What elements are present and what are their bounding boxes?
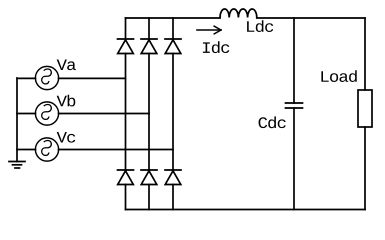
wire Vb to bridge leg 2 [59, 113, 150, 115]
wire left vertical bus [16, 78, 18, 162]
label Ldc [247, 20, 273, 32]
diode D1 [118, 39, 134, 54]
wire bridge leg 3 middle [172, 54, 174, 171]
label Idc [203, 41, 229, 53]
resistor Load [358, 90, 372, 127]
diode D4 [118, 170, 134, 185]
wire bridge leg 2 middle [148, 54, 150, 171]
diode D6 [141, 170, 157, 185]
wire top bus right segment [257, 17, 365, 19]
wire Vc to bridge leg 3 [59, 149, 174, 151]
ac source Vb [35, 102, 58, 125]
label Load [321, 70, 356, 82]
ac source Vc [35, 138, 58, 161]
wire Va left stub [17, 77, 36, 79]
ac source Va [35, 66, 58, 89]
wire bridge leg 3 lower [172, 185, 174, 210]
wire bridge leg 1 middle [125, 54, 127, 171]
diode D2 [165, 170, 181, 185]
label Va [57, 59, 76, 70]
diode D3 [141, 39, 157, 54]
wire load branch upper [364, 18, 366, 90]
arrow Idc [197, 26, 221, 34]
wire Va to bridge leg 1 [59, 77, 126, 79]
wire capacitor branch lower [293, 108, 295, 210]
ground [9, 162, 25, 169]
wire bridge leg 1 lower [125, 185, 127, 210]
label Cdc [259, 116, 286, 128]
wire bridge leg 2 upper [148, 18, 150, 39]
wire capacitor branch upper [293, 18, 295, 103]
wire bottom bus [126, 209, 366, 211]
wire top bus left segment [126, 17, 221, 19]
label Vc [57, 132, 76, 143]
inductor Ldc [220, 9, 257, 18]
diode D5 [165, 39, 181, 54]
wire bridge leg 1 upper [125, 18, 127, 39]
wire Vb left stub [17, 113, 36, 115]
wire load branch lower [364, 127, 366, 210]
wire bridge leg 3 upper [172, 18, 174, 39]
capacitor Cdc [286, 103, 303, 108]
wire bridge leg 2 lower [148, 185, 150, 210]
label Vb [57, 95, 76, 107]
wire Vc left stub [17, 149, 36, 151]
